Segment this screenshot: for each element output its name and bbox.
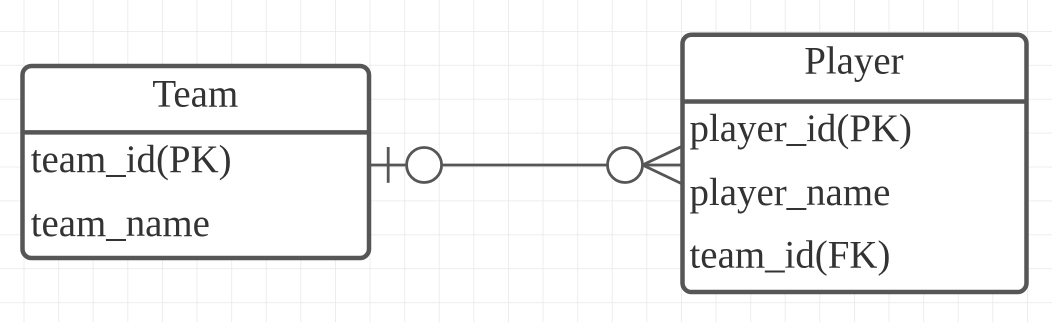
- svg-text:team_id(PK): team_id(PK): [31, 138, 232, 181]
- svg-text:Player: Player: [804, 39, 903, 82]
- svg-text:player_id(PK): player_id(PK): [690, 107, 912, 150]
- svg-text:player_name: player_name: [690, 171, 891, 214]
- svg-text:team_id(FK): team_id(FK): [690, 233, 891, 276]
- svg-text:Team: Team: [152, 73, 238, 116]
- svg-text:team_name: team_name: [31, 202, 210, 245]
